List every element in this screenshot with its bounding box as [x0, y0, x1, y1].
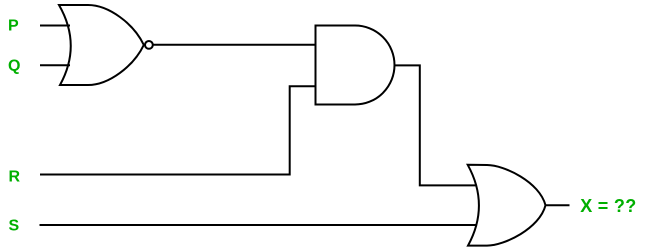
AND gate body	[316, 26, 395, 105]
wire AND output to OR upper input	[394, 65, 477, 185]
svg-text:X = ??: X = ??	[580, 196, 636, 216]
wire Q input	[40, 64, 70, 66]
wire R input to AND lower input	[40, 86, 316, 174]
svg-text:R: R	[9, 169, 21, 186]
NOR gate inversion bubble	[145, 41, 153, 49]
wire OR output	[546, 204, 570, 206]
OR gate body	[468, 165, 546, 246]
NOR gate body	[59, 5, 144, 85]
wire S input to OR lower input	[40, 224, 477, 226]
svg-text:S: S	[9, 218, 20, 235]
svg-text:Q: Q	[8, 58, 20, 75]
wire P input	[40, 25, 70, 27]
wire NOR output to AND input	[153, 44, 315, 46]
svg-text:P: P	[8, 18, 19, 35]
